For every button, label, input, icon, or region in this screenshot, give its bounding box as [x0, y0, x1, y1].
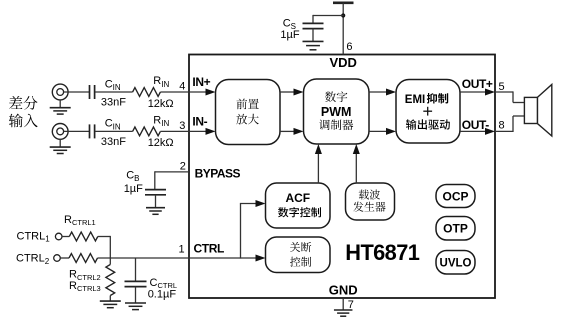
- svg-text:EMI: EMI: [405, 94, 425, 106]
- svg-text:CB: CB: [126, 169, 139, 183]
- svg-text:0.1µF: 0.1µF: [148, 289, 177, 301]
- terminal CTRL1: [55, 233, 62, 240]
- capacitor CS plates: [303, 22, 324, 24]
- svg-text:CIN: CIN: [105, 118, 121, 132]
- main IC block outline U1 HT6871: [189, 55, 495, 299]
- wire CIN2 to RIN2: [95, 130, 132, 132]
- svg-text:6: 6: [346, 41, 352, 53]
- svg-text:CTRL2: CTRL2: [16, 253, 50, 266]
- ground symbol below J1: [59, 100, 61, 108]
- svg-text:2: 2: [180, 161, 186, 173]
- svg-text:CIN: CIN: [105, 78, 121, 92]
- wire RCTRL1 to CTRL net: [98, 236, 111, 238]
- wire RIN1 to preamp with arrow: [160, 91, 206, 93]
- wire RIN2 to preamp with arrow: [160, 130, 206, 132]
- svg-text:5: 5: [499, 81, 505, 93]
- wire CTRL2 to RCTRL2: [60, 257, 69, 259]
- svg-text:1µF: 1µF: [280, 29, 299, 41]
- svg-text:CTRL: CTRL: [194, 241, 224, 255]
- block OTP: [436, 217, 475, 241]
- wire BYPASS pin stub: [155, 171, 189, 173]
- wire EMI to OUT+ pin with arrow: [460, 91, 485, 93]
- wire J2 to CIN2: [64, 130, 89, 132]
- wire OUT+ to speaker: [495, 91, 513, 93]
- node VDD junction dot: [341, 13, 345, 17]
- block digital PWM modulator: [304, 79, 370, 144]
- ground symbol below CS: [303, 40, 324, 42]
- resistor RCTRL1: [69, 232, 98, 241]
- block carrier generator (zaibo fashengqi): [346, 183, 395, 220]
- label preamp text (Chinese): [237, 99, 259, 110]
- wire CTRL1 to RCTRL1: [62, 236, 69, 238]
- svg-text:OUT-: OUT-: [462, 118, 489, 132]
- resistor RCTRL2: [69, 254, 98, 263]
- svg-text:OTP: OTP: [443, 222, 468, 236]
- wire preamp to PWM top with arrow: [280, 91, 294, 93]
- svg-text:3: 3: [179, 120, 185, 132]
- block shutdown control (guanduan kongzhi): [266, 237, 331, 273]
- resistor RIN2: [133, 127, 161, 136]
- wire ACF to PWM with arrow: [317, 154, 319, 183]
- ground symbol below CB: [146, 207, 165, 209]
- svg-text:BYPASS: BYPASS: [195, 166, 241, 180]
- ground symbol below RCTRL3: [100, 300, 121, 302]
- svg-text:GND: GND: [329, 283, 358, 298]
- label shutdown text (Chinese): [290, 242, 311, 252]
- wire EMI to OUT- pin with arrow: [460, 130, 485, 132]
- svg-text:IN+: IN+: [192, 75, 210, 89]
- block ACF digital control: [266, 183, 331, 228]
- ground symbol below J2: [59, 139, 61, 147]
- svg-text:OUT+: OUT+: [462, 77, 493, 91]
- capacitor CIN2 plates: [89, 124, 91, 138]
- wire GND pin to ground: [342, 298, 344, 310]
- wire CS to ground: [312, 29, 314, 42]
- wire CTRL branch to ACF with arrow: [240, 204, 242, 259]
- capacitor CIN1 plates: [89, 85, 91, 99]
- ground symbol GND: [334, 309, 353, 311]
- VDD supply rail bar: [333, 1, 354, 4]
- block EMI suppression + output driver: [396, 80, 460, 144]
- svg-text:33nF: 33nF: [101, 136, 126, 148]
- wire CB to ground: [155, 195, 157, 208]
- capacitor CB plates: [145, 189, 166, 191]
- input jack J2 (IN-): [52, 123, 68, 139]
- svg-text:RIN: RIN: [153, 115, 169, 129]
- svg-text:HT6871: HT6871: [345, 240, 419, 265]
- svg-text:ACF: ACF: [285, 191, 310, 205]
- svg-text:1µF: 1µF: [124, 183, 143, 195]
- svg-text:PWM: PWM: [321, 105, 352, 119]
- block UVLO: [436, 251, 475, 275]
- svg-text:UVLO: UVLO: [440, 258, 472, 270]
- wire preamp to PWM bottom with arrow: [280, 130, 294, 132]
- svg-text:12kΩ: 12kΩ: [148, 137, 174, 149]
- wire VDD rail to pin 6: [342, 3, 344, 55]
- label PWM text (Chinese + PWM): [325, 91, 347, 102]
- capacitor CCTRL plates: [125, 280, 147, 282]
- svg-text:RIN: RIN: [153, 75, 169, 89]
- wire PWM to EMI bottom with arrow: [369, 130, 386, 132]
- wire CTRL net to pin 1 and shutdown block with arrow: [98, 257, 256, 259]
- svg-text:8: 8: [499, 120, 505, 132]
- svg-text:RCTRL3: RCTRL3: [69, 280, 101, 293]
- label carrier text (Chinese): [359, 190, 380, 200]
- block OCP: [436, 185, 475, 208]
- svg-text:4: 4: [179, 81, 185, 93]
- label EMI line3 (Chinese): [406, 119, 450, 129]
- wire RCTRL3 to ground: [109, 296, 111, 301]
- wire CCTRL to ground: [135, 287, 137, 303]
- ground symbol below CCTRL: [125, 302, 146, 304]
- svg-text:OCP: OCP: [442, 189, 468, 203]
- svg-text:12kΩ: 12kΩ: [148, 98, 174, 110]
- terminal CTRL2: [54, 255, 61, 262]
- wire PWM to EMI top with arrow: [369, 91, 386, 93]
- svg-text:1: 1: [179, 243, 185, 255]
- svg-text:RCTRL1: RCTRL1: [64, 214, 96, 227]
- capacitor CCTRL wire: [135, 258, 137, 281]
- resistor RIN1: [133, 88, 161, 97]
- label EMI plus sign: [423, 110, 432, 112]
- svg-text:VDD: VDD: [329, 55, 356, 70]
- wire J1 to CIN1: [64, 91, 89, 93]
- block preamp (qianzhi fangda): [216, 80, 281, 145]
- wire CIN1 to RIN1: [95, 91, 132, 93]
- wire VDD node to capacitor CS: [313, 15, 344, 17]
- input jack J1 (IN+): [52, 84, 68, 100]
- resistor RCTRL3 vertical: [109, 258, 111, 265]
- label differential input (Chinese): [9, 96, 38, 110]
- svg-text:IN-: IN-: [192, 114, 207, 128]
- wire carrier gen to PWM with arrow: [355, 154, 357, 183]
- speaker LS1: [537, 85, 551, 137]
- svg-text:CTRL1: CTRL1: [17, 230, 51, 243]
- svg-text:33nF: 33nF: [101, 96, 126, 108]
- wire OUT- to speaker: [495, 130, 513, 132]
